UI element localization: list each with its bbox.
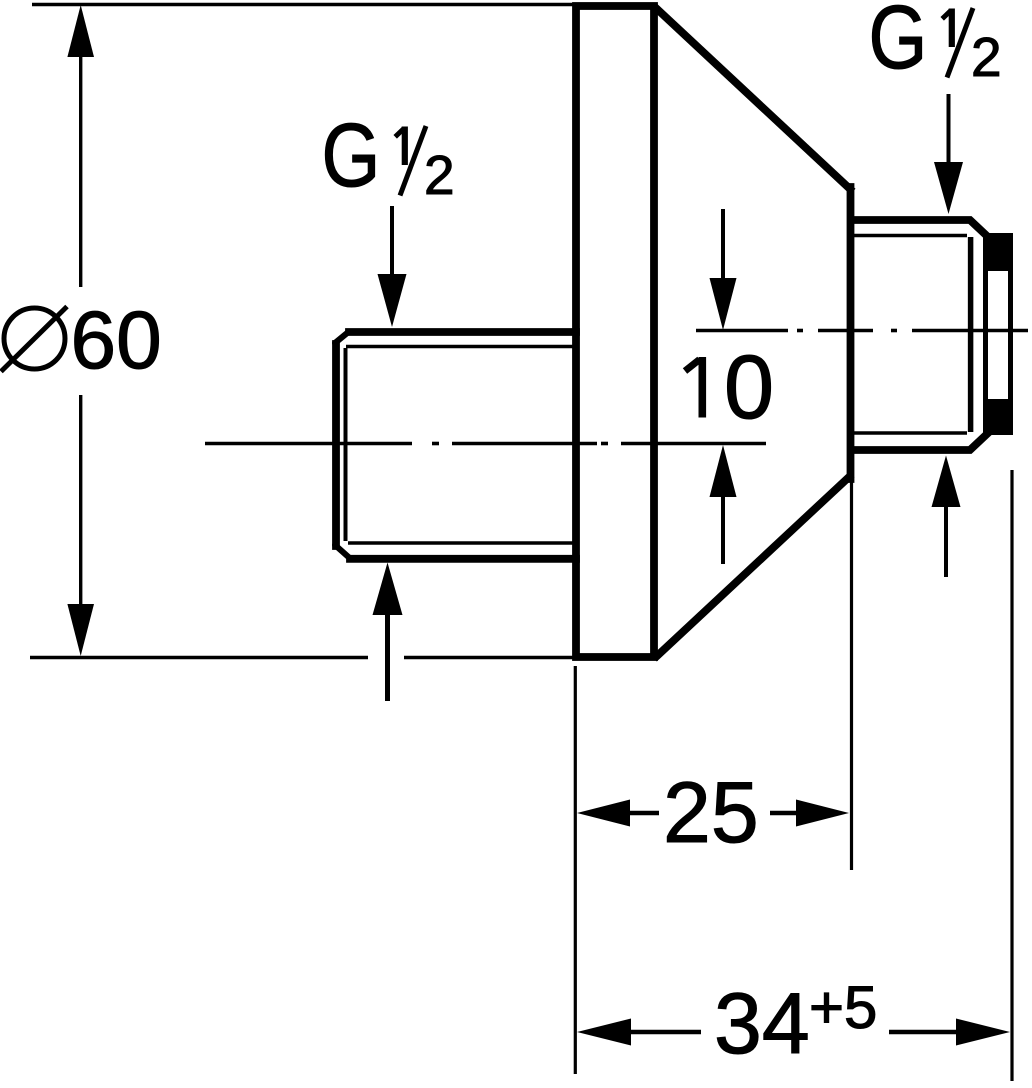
svg-text:25: 25	[663, 765, 759, 861]
svg-text:G: G	[869, 0, 928, 87]
svg-text:2: 2	[971, 26, 1002, 88]
svg-text:2: 2	[424, 144, 455, 206]
svg-text:G: G	[322, 105, 381, 206]
svg-text:0: 0	[724, 338, 774, 438]
svg-text:60: 60	[71, 295, 162, 386]
svg-text:+5: +5	[809, 974, 877, 1041]
svg-text:34: 34	[714, 976, 810, 1072]
